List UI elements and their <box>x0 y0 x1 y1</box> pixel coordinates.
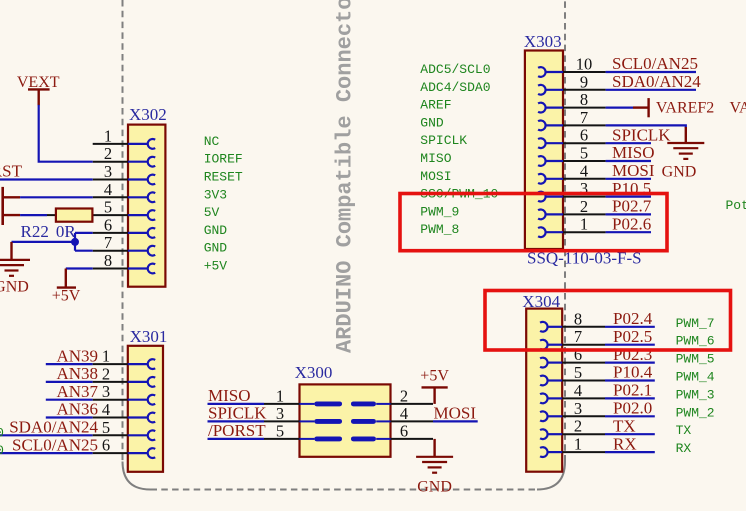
svg-text:SDA0/AN24: SDA0/AN24 <box>612 72 701 91</box>
X303 pin 5 line <box>538 156 606 166</box>
svg-text:GND: GND <box>0 279 29 296</box>
svg-text:PWM_8: PWM_8 <box>420 222 459 237</box>
svg-text:PWM_2: PWM_2 <box>676 405 715 420</box>
X302 pin 6 line <box>93 228 156 238</box>
wire junction to GND stub <box>12 241 76 243</box>
X302 pin 5 line <box>93 210 156 220</box>
svg-text:4: 4 <box>574 381 582 400</box>
svg-text:5V: 5V <box>204 205 220 220</box>
svg-text:10: 10 <box>576 55 593 74</box>
power port +5V at X300 pin 2 <box>420 367 449 404</box>
svg-text:2: 2 <box>400 386 408 405</box>
X304 pin 8 line <box>540 322 605 332</box>
wire SPICLK <box>606 142 651 144</box>
junction node <box>71 238 79 246</box>
wire to X302 pin 4 <box>20 196 93 198</box>
X301 pin 4 wire and line <box>46 413 155 423</box>
svg-text:P02.4: P02.4 <box>613 309 653 328</box>
svg-text:9: 9 <box>580 72 588 91</box>
X304 pin 2 line <box>540 429 605 439</box>
svg-text:P02.6: P02.6 <box>612 214 651 233</box>
wire P02.6 <box>606 231 651 233</box>
X300 left wires <box>208 404 265 439</box>
X304 pin 7 line <box>540 340 605 350</box>
ground stub at X300 pin 6 <box>433 439 435 457</box>
svg-text:0: 0 <box>0 425 4 440</box>
wire VAREF2 <box>606 106 633 108</box>
svg-text:AN37: AN37 <box>56 382 98 401</box>
wire junction vertical <box>74 233 76 251</box>
svg-text:7: 7 <box>580 108 588 127</box>
svg-text:7: 7 <box>104 233 112 252</box>
svg-text:P02.7: P02.7 <box>612 197 652 216</box>
svg-text:ADC5/SCL0: ADC5/SCL0 <box>420 62 490 77</box>
dashed boundary of ARDUINO compatible connector block <box>122 0 124 462</box>
ground stub (X303) <box>685 127 687 143</box>
wire P02.7 <box>606 213 651 215</box>
X303 pin 10 line <box>538 67 606 77</box>
svg-text:1: 1 <box>276 386 284 405</box>
svg-text:GND: GND <box>420 115 444 130</box>
svg-text:SCL0/AN25: SCL0/AN25 <box>612 54 698 73</box>
red highlight box over X303 PWM pins <box>400 194 667 251</box>
wire VEXT to X302 pin 2 <box>39 105 93 162</box>
svg-text:SDA0/AN24: SDA0/AN24 <box>9 418 98 437</box>
wire P02.4 <box>605 326 655 328</box>
wire P02.0 <box>605 415 655 417</box>
X301 pin 5 wire and line <box>0 430 155 440</box>
wire SDA0/AN24 <box>606 89 696 91</box>
X302 pin 2 line <box>93 157 156 167</box>
X302 pin numbers 1-8 <box>104 126 112 270</box>
X304 pin 1 line <box>540 447 605 457</box>
X303 pin 4 line <box>538 174 606 184</box>
svg-text:PWM_5: PWM_5 <box>676 352 715 367</box>
X300 left labels MISO SPICLK /PORST <box>208 386 267 440</box>
X300 pin row 1/2 <box>264 403 433 405</box>
svg-text:ADC4/SDA0: ADC4/SDA0 <box>420 80 490 95</box>
connector X303 body <box>525 51 563 250</box>
svg-text:7: 7 <box>574 327 582 346</box>
svg-text:AN38: AN38 <box>56 364 98 383</box>
svg-text:P02.0: P02.0 <box>613 399 652 418</box>
svg-text:X304: X304 <box>522 292 560 311</box>
X302 pin 8 line <box>93 264 156 274</box>
power port bar at left edge (pin 4 net) <box>3 187 20 225</box>
wire to R22 left <box>20 214 47 216</box>
X301 pin 1 wire and line <box>46 359 155 369</box>
svg-text:GND: GND <box>662 164 697 181</box>
svg-text:VAR: VAR <box>730 100 746 117</box>
svg-text:PWM_7: PWM_7 <box>676 316 715 331</box>
svg-text:0: 0 <box>0 443 4 458</box>
wire P02.1 <box>605 397 655 399</box>
svg-text:1: 1 <box>102 347 110 366</box>
wire MOSI <box>433 420 478 422</box>
svg-text:P02.5: P02.5 <box>613 327 652 346</box>
svg-text:1: 1 <box>580 215 588 234</box>
svg-text:RESET: RESET <box>204 170 243 185</box>
connector X302 body <box>128 125 165 287</box>
ground symbol GND (X300) <box>416 457 453 473</box>
svg-text:5: 5 <box>276 421 284 440</box>
svg-text:4: 4 <box>580 161 588 180</box>
svg-text:3: 3 <box>102 382 110 401</box>
svg-text:SPICLK: SPICLK <box>420 133 467 148</box>
X301 pin 6 wire and line <box>0 448 155 458</box>
svg-text:RX: RX <box>676 441 692 456</box>
svg-text:MISO: MISO <box>208 386 251 405</box>
wire MISO <box>606 160 651 162</box>
X304 green labels <box>676 316 715 456</box>
svg-text:+5V: +5V <box>204 259 228 274</box>
svg-text:2: 2 <box>104 144 112 163</box>
svg-text:8: 8 <box>104 251 112 270</box>
X304 pin numbers <box>574 309 582 453</box>
wire to X302 pin 7 <box>75 250 93 252</box>
X301 pin 2 wire and line <box>46 377 155 387</box>
X300 pin numbers odd <box>276 386 284 440</box>
svg-text:P10.4: P10.4 <box>613 363 653 382</box>
svg-text:X301: X301 <box>130 327 168 346</box>
wire RX <box>605 451 655 453</box>
svg-text:MOSI: MOSI <box>612 161 655 180</box>
X304 pin 6 line <box>540 358 605 368</box>
svg-text:TX: TX <box>676 423 692 438</box>
svg-text:GND: GND <box>204 223 228 238</box>
X303 pin 2 line <box>538 210 606 220</box>
power port VEXT <box>17 74 60 106</box>
X301 net labels <box>9 346 98 454</box>
svg-text:SPICLK: SPICLK <box>208 404 267 423</box>
svg-text:X303: X303 <box>524 32 562 51</box>
X300 pin numbers even <box>400 386 408 440</box>
svg-text:5: 5 <box>104 198 112 217</box>
svg-text:X300: X300 <box>295 363 333 382</box>
wire MOSI <box>606 178 651 180</box>
X303 pin 1 line <box>538 227 606 237</box>
power port +5V (left) <box>52 269 81 305</box>
svg-text:VEXT: VEXT <box>17 74 60 91</box>
svg-text:5: 5 <box>580 144 588 163</box>
svg-text:3: 3 <box>574 399 582 418</box>
svg-text:0R: 0R <box>56 222 77 241</box>
X302 pin 4 line <box>93 192 156 202</box>
power port VAREF2 <box>633 98 714 117</box>
wire X303 pin7 to ground <box>606 125 686 128</box>
svg-text:PWM_9: PWM_9 <box>420 204 459 219</box>
svg-text:6: 6 <box>580 126 588 145</box>
svg-text:ARDUINO Compatible Connector: ARDUINO Compatible Connector <box>333 0 358 353</box>
svg-text:6: 6 <box>104 215 112 234</box>
svg-text:P02.1: P02.1 <box>613 381 652 400</box>
wire P10.5 <box>606 196 651 198</box>
wire RST to X302 pin 3 <box>0 178 93 180</box>
svg-text:PORST: PORST <box>0 162 23 181</box>
X303 pin 8 line <box>538 103 606 113</box>
X303 pin numbers <box>576 55 593 234</box>
svg-text:AREF: AREF <box>420 98 451 113</box>
wire TX <box>605 433 655 435</box>
svg-text:MISO: MISO <box>612 143 655 162</box>
X303 pin 6 line <box>538 138 606 148</box>
X304 pin 4 line <box>540 393 605 403</box>
svg-text:MISO: MISO <box>420 151 451 166</box>
svg-text:GND: GND <box>417 478 452 495</box>
svg-text:MOSI: MOSI <box>420 169 451 184</box>
X304 pin 3 line <box>540 411 605 421</box>
svg-text:4: 4 <box>104 180 112 199</box>
svg-text:5: 5 <box>574 363 582 382</box>
svg-text:3V3: 3V3 <box>204 187 227 202</box>
svg-text:TX: TX <box>613 416 636 435</box>
svg-text:4: 4 <box>102 400 110 419</box>
X302 pin 7 line <box>93 246 156 256</box>
X303 pin 9 line <box>538 85 606 95</box>
svg-text:R22: R22 <box>21 222 49 241</box>
svg-text:1: 1 <box>574 435 582 454</box>
X303 green labels <box>420 62 498 237</box>
svg-text:1: 1 <box>104 126 112 145</box>
svg-text:X302: X302 <box>129 105 167 124</box>
svg-text:2: 2 <box>102 364 110 383</box>
svg-text:5: 5 <box>102 418 110 437</box>
svg-text:Poten: Poten <box>726 198 746 213</box>
svg-text:3: 3 <box>276 404 284 423</box>
svg-text:MOSI: MOSI <box>434 404 477 423</box>
svg-text:SCL0/AN25: SCL0/AN25 <box>12 435 98 454</box>
wire P02.5 <box>605 344 655 346</box>
connector X301 body <box>128 346 163 472</box>
ground symbol GND (left) <box>0 260 30 276</box>
X302 pin 3 line <box>93 175 156 185</box>
wire SCL0/AN25 <box>606 71 696 73</box>
X301 pin numbers <box>102 347 110 455</box>
svg-text:3: 3 <box>104 162 112 181</box>
wire P02.3 <box>605 362 655 364</box>
X300 pin row 5/6 <box>264 438 433 440</box>
svg-text:/PORST: /PORST <box>208 421 266 440</box>
connector X300 body <box>300 384 391 456</box>
wire P10.4 <box>605 379 655 381</box>
wire to X302 pin 6 <box>75 232 93 234</box>
svg-text:8: 8 <box>574 309 582 328</box>
X301 pin 3 wire and line <box>46 395 155 405</box>
svg-text:6: 6 <box>400 421 408 440</box>
svg-text:IOREF: IOREF <box>204 152 243 167</box>
svg-text:2: 2 <box>574 417 582 436</box>
svg-text:RX: RX <box>613 434 637 453</box>
ground symbol GND (X303) <box>667 143 704 159</box>
svg-text:+5V: +5V <box>52 288 81 305</box>
clipped green labels at left edge <box>0 425 4 458</box>
wire +5V to X302 pin 8 <box>66 267 93 269</box>
connector X304 body <box>526 309 562 472</box>
svg-text:8: 8 <box>580 90 588 109</box>
X302 pin 1 line <box>93 139 156 149</box>
svg-text:6: 6 <box>574 345 582 364</box>
X300 pin row 3/4 <box>264 420 433 422</box>
resistor R22 0R <box>47 209 92 222</box>
X303 pin 3 line <box>538 192 606 202</box>
svg-text:P02.3: P02.3 <box>613 345 652 364</box>
svg-text:4: 4 <box>400 404 408 423</box>
svg-text:AN36: AN36 <box>56 400 98 419</box>
svg-text:PWM_3: PWM_3 <box>676 387 715 402</box>
red highlight box over X304 PWM pins <box>485 291 731 351</box>
ground symbol stub (left) <box>10 242 12 260</box>
svg-text:2: 2 <box>580 197 588 216</box>
X304 pin 5 line <box>540 376 605 386</box>
svg-text:VAREF2: VAREF2 <box>656 100 714 117</box>
svg-text:GND: GND <box>204 241 228 256</box>
svg-text:+5V: +5V <box>420 367 449 384</box>
svg-text:SPICLK: SPICLK <box>612 125 671 144</box>
svg-text:NC: NC <box>204 134 220 149</box>
svg-text:PWM_6: PWM_6 <box>676 334 715 349</box>
svg-text:6: 6 <box>102 436 110 455</box>
X302 green pin labels <box>204 134 243 274</box>
X303 pin 7 line <box>538 120 606 130</box>
svg-text:AN39: AN39 <box>56 346 98 365</box>
svg-text:PWM_4: PWM_4 <box>676 370 715 385</box>
